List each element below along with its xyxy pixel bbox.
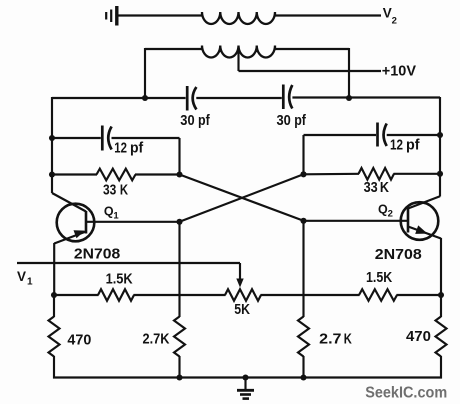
svg-text:V: V bbox=[383, 6, 392, 21]
svg-text:1: 1 bbox=[27, 277, 33, 288]
svg-text:5K: 5K bbox=[234, 302, 250, 318]
svg-text:pf: pf bbox=[130, 141, 143, 157]
svg-text:+10V: +10V bbox=[382, 63, 417, 79]
svg-text:470: 470 bbox=[406, 329, 431, 345]
svg-text:30: 30 bbox=[180, 113, 194, 129]
svg-text:2: 2 bbox=[392, 16, 397, 27]
svg-text:K: K bbox=[380, 180, 390, 196]
svg-text:1.5K: 1.5K bbox=[106, 272, 134, 288]
svg-text:pf: pf bbox=[406, 138, 420, 154]
svg-text:12: 12 bbox=[390, 138, 403, 154]
svg-text:2.7K: 2.7K bbox=[143, 332, 170, 348]
svg-text:SeekIC.com: SeekIC.com bbox=[365, 385, 447, 402]
svg-text:2: 2 bbox=[388, 209, 393, 220]
svg-text:Q: Q bbox=[104, 205, 114, 219]
svg-text:1.5K: 1.5K bbox=[366, 270, 393, 286]
svg-text:2N708: 2N708 bbox=[74, 246, 120, 262]
svg-text:K: K bbox=[344, 331, 352, 347]
svg-text:12: 12 bbox=[114, 141, 127, 157]
svg-text:470: 470 bbox=[67, 333, 91, 349]
svg-text:30: 30 bbox=[277, 113, 291, 129]
svg-text:2.7: 2.7 bbox=[319, 331, 341, 347]
svg-text:K: K bbox=[120, 183, 129, 199]
svg-text:pf: pf bbox=[294, 113, 306, 129]
svg-text:33: 33 bbox=[364, 180, 378, 196]
svg-text:1: 1 bbox=[113, 211, 119, 222]
svg-text:2N708: 2N708 bbox=[375, 247, 422, 263]
svg-text:pf: pf bbox=[198, 113, 210, 129]
svg-text:Q: Q bbox=[378, 203, 388, 217]
svg-text:33: 33 bbox=[103, 183, 116, 199]
svg-text:V: V bbox=[17, 269, 26, 284]
